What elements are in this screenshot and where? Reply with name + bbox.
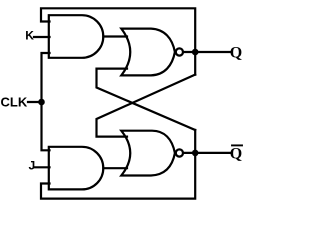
node Qbar junction dot (192, 150, 199, 157)
AND gate bottom (J) (49, 147, 103, 190)
wire top feedback edge (41, 8, 195, 74)
wire NOR1 lower input from Qbar feedback (97, 69, 196, 130)
svg-text:CLK: CLK (1, 95, 28, 110)
wire J input (35, 166, 50, 168)
node CLK junction dot (38, 99, 45, 106)
bubble NOR bottom (176, 149, 183, 156)
wire Qbar output (183, 152, 230, 154)
svg-text:J: J (29, 159, 36, 173)
wire AND2 output (103, 167, 127, 169)
bubble NOR top (176, 48, 183, 55)
AND gate top (K) (49, 15, 103, 58)
overline of Qbar (232, 144, 242, 146)
wire NOR2 upper input from Q feedback (97, 75, 196, 137)
wire Q output (183, 51, 230, 53)
svg-text:Q: Q (230, 44, 242, 61)
NOR gate bottom (121, 131, 175, 176)
svg-text:K: K (25, 29, 34, 43)
wire bottom feedback edge (41, 130, 195, 199)
wire K input (34, 36, 50, 38)
svg-text:Q: Q (230, 145, 242, 162)
wire CLK vertical (42, 53, 50, 150)
wire CLK horizontal (28, 101, 42, 103)
wire AND1 output (103, 35, 127, 37)
NOR gate top (121, 29, 175, 76)
node Q junction dot (192, 49, 199, 56)
